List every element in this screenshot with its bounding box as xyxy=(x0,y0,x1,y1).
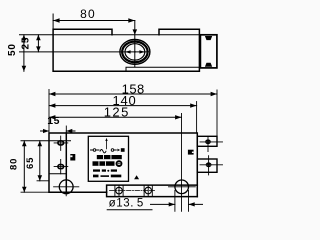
dimension 65 left xyxy=(39,141,41,181)
dimension 158 xyxy=(49,90,217,137)
nameplate bold row 2 xyxy=(93,161,115,166)
wheel inner circle xyxy=(125,44,145,60)
body outline top view xyxy=(53,29,199,71)
nameplate small row 1 xyxy=(93,169,117,171)
arrow down on centerline xyxy=(133,29,138,34)
arrow at wheel right xyxy=(139,50,144,53)
extension line 80 bottom xyxy=(21,191,49,193)
extension line 65 bottom xyxy=(37,180,49,182)
terminal block lower xyxy=(197,159,217,172)
svg-text:15: 15 xyxy=(47,115,60,127)
end block top tab xyxy=(205,36,212,40)
wheel hub dot xyxy=(134,51,136,53)
strip screw 2 xyxy=(145,187,152,194)
dimension 140 xyxy=(196,102,198,134)
dimension 13.5 xyxy=(175,191,189,212)
right circle xyxy=(175,180,189,194)
marker square left xyxy=(70,154,75,161)
nameplate bold row 1 xyxy=(97,155,122,159)
svg-text:25: 25 xyxy=(20,37,31,50)
mid centerline horizontal xyxy=(20,51,149,53)
wheel centerline vertical xyxy=(134,21,136,67)
marker square right xyxy=(188,150,194,155)
svg-text:65: 65 xyxy=(25,157,36,169)
svg-text:80: 80 xyxy=(80,7,96,21)
triangle marker xyxy=(134,175,139,179)
svg-text:80: 80 xyxy=(8,158,19,170)
dimension 80 left xyxy=(23,141,25,192)
end block bottom tab xyxy=(205,63,212,67)
terminal block upper xyxy=(197,136,217,146)
left circle xyxy=(59,180,73,194)
bottom strip xyxy=(107,185,198,197)
bottom rim line xyxy=(126,67,199,71)
bracket divider xyxy=(65,133,67,192)
nameplate circuit row xyxy=(91,141,117,153)
dimension 50 xyxy=(23,35,25,72)
svg-text:ø13. 5: ø13. 5 xyxy=(109,198,144,210)
end block top view xyxy=(200,35,217,68)
dimension 125 xyxy=(181,114,183,212)
bracket top line + extension xyxy=(21,140,71,142)
strip screw 1 xyxy=(116,187,123,194)
rim line top xyxy=(20,34,200,36)
dimension 15 xyxy=(65,126,67,133)
strip centerline xyxy=(110,190,155,192)
nameplate xyxy=(88,136,128,181)
svg-text:125: 125 xyxy=(104,105,130,120)
knurled wheel outer xyxy=(120,40,150,65)
nameplate small row 2 xyxy=(93,175,121,178)
body outline front view xyxy=(49,133,197,197)
dimension 25 xyxy=(37,35,39,52)
bracket bottom line xyxy=(49,173,66,175)
svg-text:50: 50 xyxy=(7,43,18,56)
slot 1 xyxy=(58,141,64,145)
nameplate logo mark xyxy=(116,160,123,167)
knurl teeth ring xyxy=(122,42,147,63)
dimension 80 top xyxy=(52,14,54,29)
arrow inside wheel xyxy=(125,50,130,53)
slot 2 xyxy=(58,165,64,169)
